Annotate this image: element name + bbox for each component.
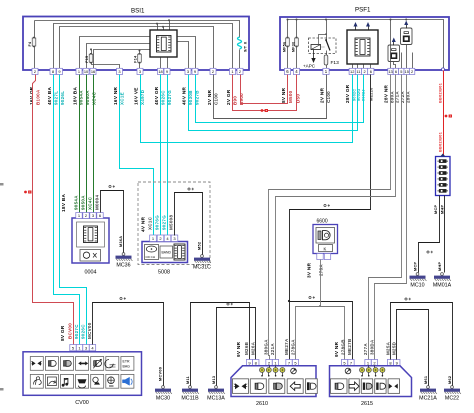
svg-text:F13: F13 <box>331 60 340 66</box>
wires into top of central connector <box>157 24 159 31</box>
unit 0004 <box>72 218 109 263</box>
fuse/relay box PSF1 <box>280 17 449 70</box>
ground MC11B wire to 2610 pin9 <box>191 303 250 386</box>
svg-text:+APC: +APC <box>303 64 316 69</box>
svg-text:40V BA: 40V BA <box>47 86 52 105</box>
fuse MF56 <box>287 20 289 69</box>
svg-text:MHP: MHP <box>441 204 445 214</box>
cyan wire 9030B BSI1 to PSF1 pin11 <box>189 75 358 131</box>
CV00 switch icons <box>30 357 43 371</box>
svg-text:MC11B: MC11B <box>181 395 199 401</box>
svg-text:B90: B90 <box>233 96 238 105</box>
svg-text:9027C: 9027C <box>74 324 79 339</box>
svg-text:F14: F14 <box>134 56 138 63</box>
svg-text:M5008: M5008 <box>169 215 174 230</box>
svg-text:8: 8 <box>52 69 54 74</box>
svg-text:MC36: MC36 <box>116 262 130 268</box>
green wire XC4C <box>93 75 95 213</box>
ground MC21A <box>427 386 430 389</box>
2610 bulb connectors <box>260 368 265 373</box>
svg-text:MC30: MC30 <box>156 395 170 401</box>
svg-text:C100: C100 <box>214 93 219 105</box>
cyan wire 9027B BSI1 to PSF1 pin2 <box>196 75 364 123</box>
wire M5008 from 5008 pin3 to ground MC31C <box>175 193 203 255</box>
svg-text:16V VE: 16V VE <box>134 87 139 105</box>
svg-text:BAG: BAG <box>123 364 131 368</box>
svg-text:3: 3 <box>139 69 141 74</box>
arrows into block top <box>355 27 357 31</box>
svg-text:16V NR: 16V NR <box>113 86 118 105</box>
branch ME27B to 2615 pin7 <box>290 302 353 360</box>
gray wire 271A PSF1 to 2610 pin1 <box>276 75 396 360</box>
ground MC30 <box>162 386 165 389</box>
svg-text:8V GR: 8V GR <box>60 325 65 341</box>
svg-text:BB02/B01: BB02/B01 <box>439 132 443 152</box>
svg-text:1: 1 <box>78 69 80 74</box>
svg-text:2: 2 <box>411 69 413 74</box>
ground MC10 <box>416 273 419 276</box>
relay F13 <box>309 38 337 54</box>
svg-text:13: 13 <box>388 69 392 74</box>
svg-text:MC31C: MC31C <box>193 264 211 270</box>
relay switch <box>326 20 328 41</box>
svg-text:9: 9 <box>194 69 196 74</box>
wire red B100A from BSI1 pin 2 to CV00 <box>33 75 74 345</box>
svg-text:M13: M13 <box>212 376 216 384</box>
ECU box BSI1 <box>23 17 249 71</box>
svg-text:M11: M11 <box>186 376 190 384</box>
steering column unit CV00 <box>23 352 142 396</box>
svg-text:BB02/B01: BB02/B01 <box>439 83 443 103</box>
2615 bulb connectors <box>360 368 365 373</box>
2610 icons <box>233 379 249 394</box>
svg-text:2V GR: 2V GR <box>226 89 231 105</box>
CV00 icon rear wiper <box>93 377 98 382</box>
splice on B100A <box>24 191 27 194</box>
wire MCP from strip to MC10 <box>419 196 440 273</box>
svg-text:ME27B: ME27B <box>347 338 352 355</box>
svg-text:18V BA: 18V BA <box>61 193 66 212</box>
svg-text:9026C: 9026C <box>81 324 86 339</box>
svg-text:15: 15 <box>405 69 409 74</box>
6600 pins <box>317 254 323 260</box>
PSF1 connector block <box>347 30 378 64</box>
svg-text:MCV00: MCV00 <box>87 322 92 339</box>
wire MHP from strip to MM01A <box>444 196 446 273</box>
black wire ME26 PSF1 pin6 to lamps <box>290 75 371 360</box>
svg-text:1: 1 <box>231 69 233 74</box>
svg-text:MC13A: MC13A <box>207 395 225 401</box>
2615 leveling motor glyph <box>345 368 351 374</box>
BSI1 pins <box>32 68 38 74</box>
svg-text:3: 3 <box>187 69 189 74</box>
ground MC31C <box>201 255 204 258</box>
fuse F4 <box>34 21 36 69</box>
CV00 icon low beam <box>48 361 50 366</box>
svg-text:9027L: 9027L <box>54 91 59 105</box>
wires from connector bottom to pins 18/9 <box>160 58 162 69</box>
svg-text:28V NR: 28V NR <box>384 84 389 103</box>
svg-text:2615: 2615 <box>361 401 373 407</box>
splice on BB02 <box>445 115 448 118</box>
unit 5008 <box>142 242 188 263</box>
svg-text:2: 2 <box>212 69 214 74</box>
2615 pins <box>341 360 347 366</box>
svg-text:XC1C: XC1C <box>148 216 153 230</box>
0004 pins <box>76 213 82 219</box>
svg-text:F4: F4 <box>28 42 32 47</box>
svg-text:F15: F15 <box>85 56 89 63</box>
wire MCV00 from CV00 pin4 to ground MC30 <box>93 303 164 386</box>
node BB02 output <box>442 68 445 71</box>
0004 lower icon <box>80 250 101 262</box>
+APC arrow <box>313 50 315 59</box>
svg-text:XC1E: XC1E <box>120 92 125 105</box>
svg-text:BCV00: BCV00 <box>68 323 73 339</box>
unit 6600 <box>313 225 338 254</box>
CV00 icon fog lamp <box>94 361 96 366</box>
headlamp unit 2610 <box>231 366 316 397</box>
svg-text:MC22: MC22 <box>445 395 459 401</box>
branch 278GA to 2610 pin5 <box>296 307 321 360</box>
svg-text:0004: 0004 <box>85 270 97 276</box>
wire loop pin8 <box>54 24 233 69</box>
svg-text:M25D: M25D <box>392 341 397 355</box>
svg-text:MF56: MF56 <box>283 42 287 52</box>
svg-text:3: 3 <box>118 69 120 74</box>
0004 inner connector <box>77 222 105 247</box>
fuse F14 <box>138 54 142 62</box>
green wire 9050A <box>86 75 88 213</box>
svg-text:277A: 277A <box>363 343 368 355</box>
2615 icons <box>331 379 348 394</box>
cyan wire XC1E BSI1 to 5008 pin1 <box>120 75 154 236</box>
wire loop pin9 <box>60 27 214 69</box>
cyan wire X497D BSI1 to PSF1 pin12 <box>141 75 353 143</box>
ground MM01A <box>441 273 444 276</box>
CV00 icon horn <box>123 377 130 385</box>
svg-text:2V NR: 2V NR <box>207 89 212 105</box>
svg-text:11: 11 <box>356 69 360 74</box>
svg-text:PSF1: PSF1 <box>355 7 371 14</box>
svg-text:28V GR: 28V GR <box>345 84 350 103</box>
wire 9026L cyan BSI1 to CV00 <box>60 75 87 345</box>
svg-text:2V NR: 2V NR <box>320 87 325 103</box>
svg-text:40V GR: 40V GR <box>154 86 159 105</box>
svg-text:BAND: BAND <box>162 251 172 255</box>
gray wire C100 BSI1 to PSF1 pin1 <box>214 75 327 119</box>
CV00 icon flash-to-pass <box>32 361 41 366</box>
svg-text:MC21A: MC21A <box>419 395 437 401</box>
svg-text:278GB: 278GB <box>340 339 345 355</box>
svg-text:3V NR: 3V NR <box>307 262 312 278</box>
svg-text:M36A: M36A <box>119 236 123 247</box>
svg-text:9: 9 <box>166 69 168 74</box>
svg-text:6: 6 <box>395 69 397 74</box>
svg-text:221A: 221A <box>270 343 275 355</box>
svg-text:M26B: M26B <box>244 341 249 355</box>
svg-text:MCP: MCP <box>413 261 417 271</box>
page edge marks <box>0 183 4 186</box>
block bottom wires <box>352 65 354 69</box>
svg-text:380GA: 380GA <box>264 339 269 355</box>
svg-text:2: 2 <box>364 69 366 74</box>
red wire BB02/B01 from PSF1 node down to fuse holder <box>443 71 445 158</box>
svg-text:9026L: 9026L <box>60 91 65 105</box>
CV00 icon high beam <box>63 361 65 366</box>
svg-text:18: 18 <box>158 69 162 74</box>
wire M0004 from 0004 pin6 to ground MC36 <box>101 191 124 253</box>
svg-text:5: 5 <box>400 69 402 74</box>
svg-text:CV00: CV00 <box>75 400 89 406</box>
wire 278A from 6600 down <box>320 260 322 307</box>
shunt fuse 1 <box>388 45 400 62</box>
CV00 icon audio note <box>64 378 68 385</box>
svg-text:MCP: MCP <box>434 204 438 214</box>
5008 IC icon <box>174 244 185 260</box>
svg-text:MM01A: MM01A <box>433 282 452 288</box>
svg-text:K: K <box>324 247 327 252</box>
svg-text:9002C: 9002C <box>353 89 357 101</box>
relay coil <box>311 45 321 50</box>
green wire loops <box>80 37 151 69</box>
svg-text:4V NR: 4V NR <box>141 216 146 232</box>
svg-text:9050A: 9050A <box>85 90 90 105</box>
svg-text:278GA: 278GA <box>290 339 295 355</box>
svg-text:40V NR: 40V NR <box>182 86 187 105</box>
svg-text:MHP: MHP <box>438 261 442 271</box>
gray wire 272A PSF1 to 2615 pin1 <box>369 75 402 360</box>
dashed option box around 5008 <box>138 182 210 265</box>
thermal element 9/T X <box>238 37 242 49</box>
plain feed wires right group <box>390 20 392 69</box>
branch 278GB to 2615 pin5 <box>321 307 345 360</box>
green wire 9054A BSI1 to 0004 <box>79 75 81 213</box>
svg-text:B100A: B100A <box>36 89 41 105</box>
svg-text:MCV00: MCV00 <box>159 367 163 381</box>
CV00 icon parking light <box>105 360 113 368</box>
CV00 icon turn signals <box>78 361 88 365</box>
svg-text:6: 6 <box>370 69 372 74</box>
wire M25A 2615 pin8 to ground MC22 <box>391 303 453 386</box>
CV00 pins <box>70 345 76 351</box>
svg-text:9V NR: 9V NR <box>334 341 339 357</box>
svg-text:M26A: M26A <box>251 341 256 355</box>
svg-text:2610: 2610 <box>256 401 268 407</box>
5008 pins <box>150 235 157 242</box>
svg-text:M500: M500 <box>288 90 293 103</box>
svg-text:2: 2 <box>34 69 36 74</box>
relay output wire through fuse F13 to pin 1 <box>326 51 328 69</box>
svg-text:M25A: M25A <box>385 341 390 355</box>
headlamp unit 2615 <box>330 366 412 397</box>
PSF1 supply bus <box>288 20 444 69</box>
svg-text:XC4C: XC4C <box>88 196 93 210</box>
red wire B900 BSI1 to PSF1 <box>233 75 297 111</box>
cyan wire 9027G BSI1 to 5008 pin4 <box>167 75 169 236</box>
red wire B90 BSI1 to PSF1 <box>241 75 288 104</box>
svg-text:MF30: MF30 <box>292 42 296 52</box>
svg-text:380DA: 380DA <box>369 339 374 355</box>
shunt fuse 2 <box>401 28 413 45</box>
ground MC36 <box>122 253 125 256</box>
ground MC13A <box>215 386 218 389</box>
fuse holder strip <box>436 157 451 196</box>
svg-text:CD CH: CD CH <box>146 255 156 259</box>
CV00 icon washer <box>34 377 42 385</box>
svg-text:M0004: M0004 <box>95 195 100 210</box>
svg-text:ME27A: ME27A <box>284 338 289 355</box>
CV00 icon wiper <box>48 377 57 386</box>
wire loop from F4 to thermal element <box>35 21 240 38</box>
central connector of BSI1 <box>150 30 177 57</box>
cyan wire 9026C BSI1 to 5008 pin2 <box>160 75 162 236</box>
gray wire 280A PSF1 to 2615 pin2 <box>375 75 407 360</box>
svg-text:9/T X: 9/T X <box>244 41 248 52</box>
2610 leveling motor glyph <box>291 368 297 374</box>
wires from connector right to pins <box>178 37 196 69</box>
svg-text:M52: M52 <box>198 242 202 250</box>
svg-text:6600: 6600 <box>317 219 328 225</box>
svg-text:9026C: 9026C <box>161 90 166 105</box>
wire M25D 2615 pin9 to ground MC21A <box>397 310 429 386</box>
svg-text:M62: M62 <box>448 376 452 384</box>
svg-text:12: 12 <box>350 69 354 74</box>
2610 pins <box>246 360 252 366</box>
svg-text:16V OR: 16V OR <box>29 86 34 105</box>
svg-text:BSI1: BSI1 <box>131 8 145 15</box>
svg-text:9050A: 9050A <box>81 195 86 210</box>
ground MC22 <box>451 386 454 389</box>
svg-text:ETR: ETR <box>123 359 130 363</box>
svg-text:9076G: 9076G <box>155 215 160 230</box>
svg-text:16: 16 <box>91 69 95 74</box>
svg-text:9027G: 9027G <box>162 215 167 230</box>
5008 CD icon <box>145 245 159 260</box>
splice on B900 <box>261 109 264 112</box>
svg-text:M61: M61 <box>424 376 428 384</box>
svg-text:2: 2 <box>239 69 241 74</box>
svg-text:9: 9 <box>58 69 60 74</box>
svg-text:18V BA: 18V BA <box>73 86 78 105</box>
svg-text:MC10: MC10 <box>410 282 424 288</box>
fuse MF30 <box>296 20 298 69</box>
gray wire 890A PSF1 to 2610 pin2 <box>269 75 391 360</box>
5008 BAND icon <box>160 246 173 258</box>
wire 9027L cyan BSI1 to CV00 <box>54 75 80 345</box>
ground MC13A wire to 2610 pin8 <box>217 308 256 386</box>
svg-text:8V NR: 8V NR <box>281 87 286 103</box>
svg-text:5008: 5008 <box>158 270 170 276</box>
ground MC11B <box>189 386 192 389</box>
svg-text:9054A: 9054A <box>74 195 79 210</box>
svg-text:278A: 278A <box>319 264 324 276</box>
fuse F15 <box>91 50 93 55</box>
PSF1 pins <box>284 68 290 74</box>
svg-text:9V NR: 9V NR <box>236 341 241 357</box>
CV00 icon trip computer <box>78 379 87 383</box>
svg-text:272A: 272A <box>400 91 405 103</box>
CV00 icon hazard <box>108 377 115 384</box>
